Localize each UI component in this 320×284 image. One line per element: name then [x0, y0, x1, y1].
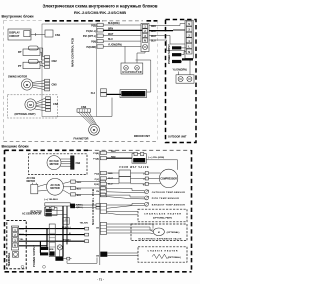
wire GRN to connector [63, 258, 66, 260]
svg-text:Электрическая схема внутреннег: Электрическая схема внутреннего и наружн… [43, 4, 158, 9]
wires to crankcase heater [107, 212, 139, 215]
svg-text:BRN: BRN [108, 28, 113, 30]
svg-text:P(RED): P(RED) [76, 204, 83, 206]
wires dc fan to connector [60, 159, 70, 166]
indoor fan motor M3 [89, 124, 100, 135]
outdoor temp sensor RT4 [145, 190, 149, 194]
connector P2(GND) [97, 45, 103, 48]
relay box upper [119, 170, 131, 177]
svg-text:CN: CN [96, 191, 100, 193]
pipe temp sensor RT5 [145, 196, 149, 200]
svg-text:RK-24SCMI/RK-24SCMB: RK-24SCMI/RK-24SCMB [74, 10, 126, 15]
svg-text:YEL/GN: YEL/GN [80, 223, 89, 225]
outdoor terminal block XT3 [11, 226, 18, 250]
svg-text:CN1: CN1 [55, 33, 61, 37]
ac fan connector BLU [71, 186, 76, 189]
svg-text:CN5: CN5 [52, 82, 58, 86]
earth screw outdoor [57, 245, 62, 250]
connector P1(AC-L) [97, 29, 103, 32]
svg-text:EVAPORATOR: EVAPORATOR [123, 71, 142, 74]
svg-text:P1(AC-L): P1(AC-L) [86, 30, 96, 33]
electronic expansion valve dashed box [131, 224, 187, 241]
power lead bar 2 [172, 53, 181, 56]
connector CN4 [46, 97, 51, 100]
svg-text:RT: RT [18, 50, 22, 54]
wire thick to reactor [107, 157, 133, 159]
ac fan connector RED [71, 180, 76, 183]
indoor terminal block XT1 [141, 24, 149, 52]
board connectors for fan [100, 180, 105, 183]
svg-text:- 71 -: - 71 - [97, 278, 104, 282]
svg-text:P1(AC-L): P1(AC-L) [62, 226, 71, 229]
wires to expansion valve [107, 224, 154, 234]
earth cell below block [13, 252, 19, 258]
svg-text:BRN: BRN [49, 249, 54, 251]
svg-text:BLK: BLK [77, 195, 82, 197]
wire BLK(ORG) [103, 24, 141, 26]
evaporator earth screw left [124, 66, 129, 71]
svg-text:POWER SUPPLY: POWER SUPPLY [167, 44, 171, 64]
svg-text:P1(B): P1(B) [93, 153, 99, 155]
connector CN5 [45, 79, 50, 82]
svg-text:AC FAN: AC FAN [27, 177, 36, 180]
wires bus bar to board [75, 205, 96, 208]
outdoor terminal block dashed box [7, 220, 26, 268]
wire indoor to outdoor terminal S [149, 24, 185, 26]
thick vertical wire 1 [62, 206, 64, 257]
wire RT to CN2 [38, 48, 45, 60]
svg-text:PT: PT [18, 64, 22, 68]
relay box lower [119, 177, 131, 184]
wire receiver loop [136, 60, 151, 92]
crankcase heater dashed box [138, 209, 187, 222]
wire evaporator ground 1 [124, 46, 126, 63]
ac fan connector BLK [71, 193, 76, 196]
svg-text:DISPLAY: DISPLAY [9, 32, 20, 35]
svg-text:N: N [188, 51, 190, 54]
wires CN3 to fan motor [78, 112, 96, 124]
power lead bar 1 [172, 46, 181, 49]
svg-text:W: W [143, 184, 145, 186]
wires fan connectors to board [76, 182, 101, 195]
svg-text:P(N): P(N) [91, 42, 96, 44]
svg-text:INDOOR UNIT: INDOOR UNIT [134, 135, 150, 138]
thick vertical wire 2 [66, 206, 68, 244]
wire BLU [103, 40, 141, 42]
dc fan motor dashed box [29, 154, 88, 175]
ac fan motor M5 [47, 178, 64, 195]
svg-text:P1F (OPT-L): P1F (OPT-L) [83, 36, 96, 38]
wires ac fan to connectors [63, 182, 70, 195]
display circuit module [8, 29, 31, 40]
main control PCB U1 outline [42, 24, 97, 117]
svg-text:YL/GN(GRN): YL/GN(GRN) [108, 45, 122, 47]
remote receiver black module [120, 90, 147, 98]
wire BRN thick AC-L [103, 29, 145, 31]
thick wire 4 from earth cell [19, 245, 47, 247]
svg-text:REACTOR: REACTOR [134, 159, 145, 162]
svg-text:WHT: WHT [108, 34, 114, 36]
svg-text:(OPTIONAL PART): (OPTIONAL PART) [153, 217, 172, 220]
svg-text:MOTOR: MOTOR [50, 187, 59, 190]
wires ac generator [52, 211, 67, 215]
wires board to compressor pins [107, 173, 146, 184]
svg-text:N: N [144, 40, 146, 43]
svg-text:(OPTIONAL): (OPTIONAL) [168, 256, 181, 259]
indoor unit dashed border [4, 20, 46, 22]
wire RED to reactor [107, 152, 136, 154]
connector P1F(OPT-L) [97, 34, 103, 37]
thick wire G to board [19, 240, 85, 242]
wire indoor to outdoor terminal N [149, 40, 185, 50]
dc bus bar [45, 203, 70, 206]
wire reactor right loop [146, 160, 177, 170]
tiny earth marks on dashed box bottom [21, 265, 24, 268]
svg-text:(~+) YEL (GRN): (~+) YEL (GRN) [148, 157, 164, 159]
svg-text:CRANKCASE HEATER: CRANKCASE HEATER [144, 212, 181, 215]
power lead bar B [40, 252, 48, 255]
svg-text:CN3: CN3 [81, 105, 87, 109]
connector CN1 [45, 30, 53, 37]
svg-text:BLU: BLU [108, 39, 113, 41]
svg-text:RED: RED [111, 156, 116, 158]
wire gnd to board bottom [67, 258, 97, 264]
svg-text:GRN: GRN [57, 259, 62, 261]
svg-text:EXHAUST TEMP.SENSOR: EXHAUST TEMP.SENSOR [152, 204, 185, 207]
chassis heater dashed box [138, 247, 187, 262]
svg-text:POWER SUPPLY: POWER SUPPLY [32, 245, 36, 267]
svg-text:MAIN CONTROL PCB: MAIN CONTROL PCB [71, 38, 75, 67]
wire PT to CN2 [38, 61, 45, 66]
wires swing motor to CN5 [32, 81, 44, 90]
svg-text:P(W): P(W) [94, 184, 99, 186]
outdoor earth screws box [176, 75, 194, 83]
dc fan motor M4 [47, 156, 61, 170]
connector N bus [96, 207, 100, 209]
svg-text:P1(A): P1(A) [93, 158, 99, 161]
wire YL/GN(GRN) [103, 45, 141, 47]
svg-text:P(GND): P(GND) [63, 239, 70, 241]
svg-text:OUTDOOR UNIT: OUTDOOR UNIT [168, 136, 187, 139]
wire receiver to PCB bottom [97, 98, 113, 117]
svg-text:RED: RED [111, 151, 116, 153]
reactor L2 module [132, 154, 146, 164]
svg-text:CN: CN [96, 228, 100, 230]
svg-text:RED: RED [77, 182, 82, 184]
connector P(B) [97, 23, 103, 26]
svg-text:WHT: WHT [151, 36, 157, 38]
wire indoor to outdoor terminal 2 [149, 35, 185, 44]
svg-text:CN2: CN2 [52, 59, 58, 63]
outdoor main board edge [99, 151, 101, 266]
power lead bar 3 [172, 60, 181, 63]
svg-text:CN4: CN4 [53, 102, 59, 106]
svg-text:OUTDOOR TEMP.SENSOR: OUTDOOR TEMP.SENSOR [152, 192, 185, 194]
svg-text:COMPRESSOR: COMPRESSOR [160, 178, 177, 181]
thick wire L to board [19, 228, 85, 230]
wires to chassis heater [107, 253, 138, 255]
connector P bus [96, 204, 100, 206]
svg-text:P2(GND): P2(GND) [87, 47, 97, 49]
svg-text:(~+) YEL/BLU: (~+) YEL/BLU [44, 199, 58, 201]
wires to exhaust temp sensor [107, 203, 145, 208]
wire power bar3 to earth [180, 61, 183, 63]
svg-text:FAN: FAN [76, 162, 81, 165]
svg-text:CIRCUIT: CIRCUIT [9, 35, 20, 38]
wire evaporator ground 2 [137, 52, 145, 64]
optional part dashed box [7, 95, 57, 118]
indoor earth terminal [143, 45, 148, 50]
svg-text:ELECTRONIC EXPANSION VALVE: ELECTRONIC EXPANSION VALVE [139, 237, 183, 240]
thick step wire down 2 [39, 241, 41, 253]
evaporator box [121, 63, 143, 74]
svg-text:BLK(ORG): BLK(ORG) [108, 23, 120, 25]
display circuit inner IC square [24, 31, 30, 37]
filter connector column [49, 224, 55, 256]
connector P(N) [97, 39, 103, 42]
wire strip N down [179, 61, 191, 75]
svg-text:REMOTE CONTROL: REMOTE CONTROL [122, 94, 145, 96]
svg-text:M: M [158, 232, 160, 234]
wire indoor to outdoor terminal 3 (thick) [149, 30, 173, 32]
dc fan connector [71, 156, 75, 170]
svg-text:YL/GN(GRN): YL/GN(GRN) [173, 68, 187, 71]
fan capacitor C1 [31, 184, 38, 193]
thick step wire down 1 [46, 229, 48, 248]
svg-text:FOUR WAY VALVE: FOUR WAY VALVE [120, 166, 149, 169]
wires reactor to bus [48, 205, 53, 207]
svg-text:P(V): P(V) [95, 179, 100, 181]
board power connectors [85, 227, 89, 230]
svg-text:Внутренние блоки: Внутренние блоки [2, 15, 34, 19]
svg-text:Внешние блоки: Внешние блоки [2, 145, 29, 149]
svg-text:CHASSIS HEATER: CHASSIS HEATER [148, 249, 178, 252]
compressor MC [159, 169, 177, 187]
svg-text:TERMINAL: TERMINAL [7, 252, 11, 266]
wires optional motor to CN4 [35, 98, 46, 111]
outdoor unit connection dashed box [166, 20, 197, 143]
fuse box X1 [63, 218, 70, 225]
evaporator earth screw right [135, 66, 140, 71]
svg-text:(OPTIONAL): (OPTIONAL) [167, 231, 180, 234]
wire earth down [59, 250, 61, 256]
wire power bar1 to strip [181, 48, 186, 55]
svg-text:FAN MOTOR: FAN MOTOR [74, 138, 89, 141]
exhaust temp sensor RT6 [145, 202, 149, 206]
wire thick to remote receiver [107, 93, 122, 95]
connector CN2 [45, 56, 50, 59]
wires to pipe temp sensor [107, 195, 145, 199]
outdoor terminal strip XT2 [185, 20, 193, 58]
svg-text:SWING MOTOR: SWING MOTOR [8, 74, 27, 78]
svg-text:AC GENERATOR: AC GENERATOR [22, 212, 41, 215]
wires to outdoor temp sensor [107, 188, 145, 192]
wire display to CN1 [31, 33, 45, 36]
thick wire N to board [19, 234, 85, 236]
svg-text:MOTOR: MOTOR [27, 181, 36, 183]
svg-text:FL2: FL2 [91, 92, 96, 95]
wire WHT [103, 35, 141, 37]
svg-text:CN: CN [96, 256, 100, 258]
ground wire black module GRN [55, 256, 63, 260]
svg-text:P(B): P(B) [91, 25, 96, 27]
wires pins to compressor [148, 173, 160, 184]
bottom section dashed border [5, 149, 89, 151]
svg-text:BLK: BLK [151, 31, 156, 33]
terminal strip bottom black bar [182, 58, 193, 60]
svg-text:RED: RED [151, 26, 156, 28]
svg-text:(OPTIONAL PART): (OPTIONAL PART) [15, 113, 36, 116]
power lead bar A [40, 247, 48, 250]
svg-text:PIPE TEMP.SENSOR: PIPE TEMP.SENSOR [152, 198, 179, 200]
optional fan motor M2 [25, 99, 36, 110]
svg-text:BLU: BLU [77, 188, 82, 190]
connector gnd [67, 257, 70, 260]
svg-text:P(U): P(U) [95, 173, 100, 175]
svg-text:BLU: BLU [151, 40, 156, 42]
svg-text:MOTOR: MOTOR [50, 163, 59, 166]
